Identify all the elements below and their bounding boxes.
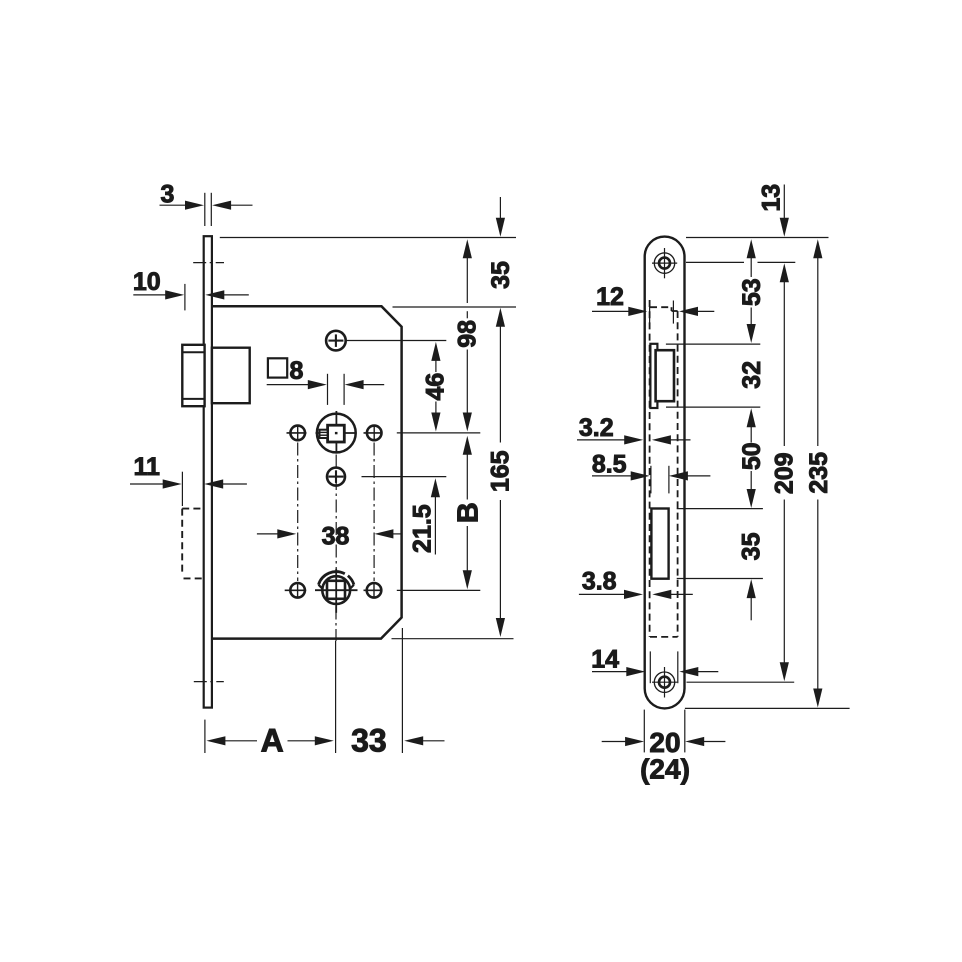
extension line follower axis [397,432,481,434]
dimension square 8 (spindle square) [267,357,385,405]
dimension 33 [351,723,444,759]
svg-text:35: 35 [487,261,515,289]
svg-text:32: 32 [738,361,766,389]
svg-text:50: 50 [738,442,766,470]
svg-text:53: 53 [738,278,766,306]
svg-text:A: A [261,723,284,759]
vertical center line left hole column [297,443,299,582]
dimension 3.8 [579,567,693,599]
vertical center line spindle axis [335,455,337,642]
deadbolt (retracted, hidden outline) [182,509,204,579]
dimension 98 (faceplate top to follower) [454,239,482,431]
dimension 3.2 (faceplate thickness) [577,414,691,445]
latch bolt head (protruding) [182,345,204,406]
lower fixing screw hole [327,468,345,486]
left fixing hole at follower [287,426,307,441]
svg-text:14: 14 [591,645,619,673]
svg-text:38: 38 [322,523,350,551]
svg-text:8: 8 [289,357,303,385]
extension line case bottom edge [392,638,514,640]
extension line faceplate top edge [220,237,516,239]
dimension 13 (top to screw) [757,184,789,237]
dimension B (follower to cylinder) [453,436,485,590]
dimension 8.5 [592,450,711,480]
svg-text:12: 12 [596,283,624,311]
dimension A (backset) [206,723,333,759]
horizontal center line across faceplate top [193,262,224,264]
svg-text:235: 235 [805,452,833,494]
dimension A and 33 extension lines [205,628,403,753]
dimension 209 (screw spacing) [770,263,798,681]
faceplate side view outline [645,237,685,709]
dimension 46 (screw to follower) [422,342,450,432]
dimension 235 (faceplate length) [805,239,833,707]
extension line faceplate bottom (side view) [685,707,850,709]
svg-text:33: 33 [351,723,387,759]
dimension 14 extension lines [650,651,678,683]
dimension 21.5 (follower to screw) [408,478,440,554]
dimension 35 (faceplate top to case top) [487,197,515,327]
follower hub with 8 mm square spindle hole [316,411,357,454]
upper faceplate screw (side view) [652,248,677,278]
dimension 12 (case width) extension lines [650,301,674,324]
lock case body (front view) [212,306,402,638]
upper fixing screw hole [326,331,346,351]
dimension 20 (24) extension lines [644,710,685,753]
dimension 3 (faceplate thickness) extension lines [205,193,212,226]
right fixing hole at cylinder [364,583,383,598]
dimension 8.5 extension lines [651,466,669,494]
svg-text:10: 10 [133,268,161,296]
latch bolt side view [650,344,674,408]
dimension 3 label and arrows [160,181,253,210]
extension line cylinder axis [397,589,481,591]
svg-text:8.5: 8.5 [592,450,627,478]
extension line upper screw axis [346,340,446,342]
dimension 10 (latch projection) [133,268,249,310]
hidden outline of lock case behind faceplate [650,300,678,637]
extension line latch bottom [666,406,760,408]
svg-text:3: 3 [160,181,174,209]
extension line latch top [666,343,760,345]
dimension 165 (case height) [487,327,515,638]
svg-text:35: 35 [738,532,766,560]
dimension 20 (faceplate width) [602,727,726,758]
deadbolt slot side view [651,509,668,579]
svg-text:11: 11 [133,453,160,481]
svg-text:98: 98 [454,320,482,348]
svg-text:3.2: 3.2 [579,414,614,442]
extension line case top edge [393,306,517,308]
lower faceplate screw (side view) [652,667,677,698]
label (24) alternative faceplate width [640,753,690,784]
svg-text:46: 46 [422,373,450,401]
dimension 14 [591,645,718,676]
svg-text:B: B [453,502,485,523]
faceplate (front view, edge-on) [204,236,212,707]
dimension 12 [592,283,714,316]
dimension 53 (top to latch) [738,239,766,343]
extension line deadbolt slot bottom [677,578,763,580]
horizontal center line across faceplate bottom [194,681,224,683]
latch bolt body behind faceplate [212,348,250,404]
dimension 38 (hole spacing) [257,523,402,551]
svg-text:13: 13 [757,184,785,212]
extension line faceplate top (side view) [686,237,829,239]
extension line deadbolt slot top [677,508,763,510]
dimension 50 (latch to deadbolt slot) [738,427,766,509]
svg-text:209: 209 [770,452,798,494]
dimension 35 (deadbolt slot height) [738,532,766,620]
extension line lower screw axis (side view) [687,681,795,683]
dimension 11 (deadbolt projection) [130,453,247,506]
dimension 32 (latch height) [738,361,766,427]
svg-text:(24): (24) [640,753,690,784]
extension line upper screw axis (side view) [686,261,795,263]
cylinder / WC hub with square and cam arc [315,569,358,613]
svg-text:21.5: 21.5 [408,504,436,553]
left fixing hole at cylinder [285,583,307,598]
svg-text:3.8: 3.8 [582,567,617,595]
right fixing hole at follower [364,426,383,441]
extension line lower screw axis [362,476,447,478]
svg-text:165: 165 [487,450,515,492]
vertical center line right hole column [373,443,375,582]
